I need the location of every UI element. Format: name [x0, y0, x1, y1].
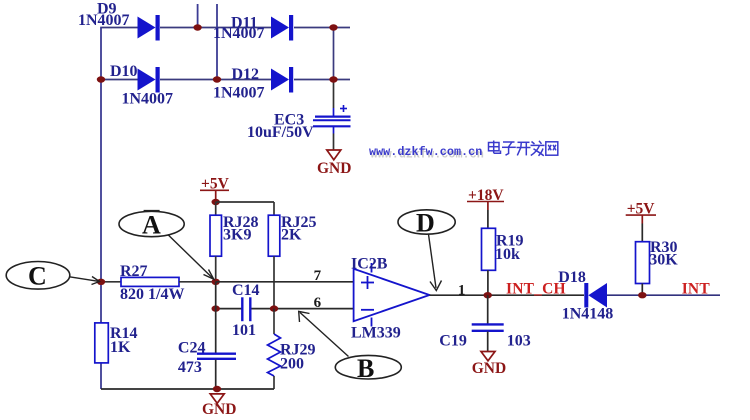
junction dot R30 node: [638, 292, 646, 298]
junction dot +5V node: [212, 199, 220, 205]
svg-text:200: 200: [280, 356, 304, 373]
power +18V: [467, 187, 504, 210]
op-amp IC2B LM339: [351, 255, 430, 341]
wire right vertical x=333.5 to EC3: [333, 28, 335, 117]
wire left main vertical x=101: [100, 28, 102, 390]
node A ellipse: [119, 211, 184, 240]
resistor R30: [636, 224, 679, 296]
svg-text:INT_CH: INT_CH: [506, 281, 566, 298]
svg-text:820 1/4W: 820 1/4W: [120, 286, 184, 303]
svg-text:www.dzkfw.com.cn: www.dzkfw.com.cn: [369, 145, 482, 159]
svg-text:A: A: [142, 211, 161, 240]
capacitor C19: [439, 295, 530, 351]
capacitor C14: [232, 282, 260, 339]
capacitor EC3: [247, 105, 351, 141]
ground EC3: [317, 150, 351, 177]
wire node A to op-amp plus input: [216, 281, 354, 283]
svg-text:1: 1: [458, 282, 466, 298]
capacitor C24: [178, 339, 236, 376]
ground bottom: [202, 394, 236, 418]
svg-text:1N4007: 1N4007: [78, 12, 130, 29]
svg-text:C24: C24: [178, 339, 206, 356]
node C ellipse: [6, 262, 70, 291]
junction dot row1/right vertical: [329, 24, 337, 30]
arrow D to output: [429, 234, 442, 290]
svg-text:IC2B: IC2B: [351, 255, 388, 272]
svg-text:3K9: 3K9: [223, 227, 251, 244]
svg-text:10uF/50V: 10uF/50V: [247, 124, 314, 141]
resistor R14: [95, 323, 138, 363]
junction dot row2/stub2: [213, 76, 221, 82]
wire D18 to right edge: [607, 294, 720, 296]
resistor RJ29 zigzag: [268, 309, 316, 389]
svg-text:1N4007: 1N4007: [122, 91, 174, 108]
svg-text:C: C: [28, 262, 47, 291]
svg-text:GND: GND: [202, 401, 236, 418]
node B ellipse: [335, 354, 401, 383]
svg-text:GND: GND: [472, 360, 506, 377]
diode D10: [110, 63, 173, 108]
resistor RJ25: [268, 214, 316, 256]
wire top stub x=217: [216, 4, 218, 80]
wire RJ25 bottom to node: [273, 256, 275, 308]
wire top row 2 horizontal y=79.5: [100, 79, 350, 81]
junction dot row2/left vertical: [97, 76, 105, 82]
svg-text:C14: C14: [232, 282, 260, 299]
svg-text:B: B: [357, 354, 374, 383]
power +5V right: [626, 200, 656, 223]
svg-text:101: 101: [232, 322, 256, 339]
svg-text:1K: 1K: [110, 339, 131, 356]
node A junction dot: [212, 279, 220, 285]
diode D9: [78, 1, 160, 41]
svg-text:D12: D12: [232, 66, 260, 83]
svg-text:1N4007: 1N4007: [213, 25, 265, 42]
arrow C to node: [70, 277, 100, 285]
svg-text:30K: 30K: [649, 251, 678, 268]
ground C19: [472, 352, 506, 378]
power +5V left: [200, 176, 230, 202]
junction dot C14 right: [270, 305, 278, 311]
arrow A to node A: [168, 235, 214, 280]
svg-text:2K: 2K: [281, 227, 302, 244]
node D ellipse: [398, 209, 455, 238]
diode D18: [558, 269, 613, 323]
resistor RJ28: [210, 214, 259, 256]
svg-text:10k: 10k: [495, 246, 520, 263]
watermark: [369, 145, 484, 162]
arrow B to minus wire: [299, 311, 349, 356]
wire +5V node to RJ25 top: [216, 202, 274, 215]
svg-text:1N4007: 1N4007: [213, 85, 265, 102]
resistor R19: [482, 210, 524, 295]
svg-text:GND: GND: [317, 160, 351, 177]
wire RJ28 bottom to node A: [215, 256, 217, 282]
diode D12: [213, 66, 293, 102]
svg-text:INT: INT: [682, 281, 711, 298]
wire bottom rail: [101, 388, 274, 390]
junction dot below node A: [212, 305, 220, 311]
watermark chinese 电子开发网: [489, 141, 558, 156]
svg-text:LM339: LM339: [351, 324, 401, 341]
wire EC3 to ground: [333, 126, 335, 150]
wire top stub x=197.6: [197, 4, 199, 28]
junction dot output node: [484, 292, 492, 298]
wire top row 1 horizontal y=27.5: [100, 27, 350, 29]
resistor R27: [101, 263, 216, 303]
svg-text:R27: R27: [120, 263, 148, 280]
junction dot row2/right vertical: [329, 76, 337, 82]
junction dot row1/stub1: [193, 24, 201, 30]
svg-text:6: 6: [314, 295, 322, 311]
wire node A down to C24: [215, 282, 217, 353]
diode D11: [213, 15, 293, 43]
svg-text:103: 103: [507, 332, 531, 349]
junction dot bottom rail: [213, 386, 221, 392]
wire C24 to bottom rail: [215, 360, 217, 390]
svg-text:1N4148: 1N4148: [562, 306, 614, 323]
svg-text:7: 7: [314, 268, 322, 284]
svg-text:473: 473: [178, 359, 202, 376]
svg-text:D10: D10: [110, 63, 138, 80]
junction dot node C at left vertical: [97, 279, 105, 285]
svg-text:D18: D18: [558, 269, 586, 286]
wire C14 row to op-amp minus input: [216, 308, 354, 310]
svg-text:D: D: [416, 209, 435, 238]
svg-text:C19: C19: [439, 332, 467, 349]
wire op-amp output: [430, 294, 585, 296]
